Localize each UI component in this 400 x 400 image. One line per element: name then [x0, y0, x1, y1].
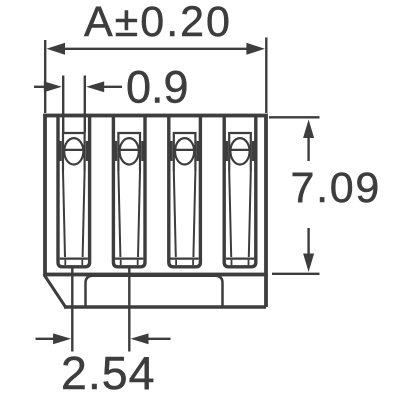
cavity 1 right wing stub: [86, 141, 89, 161]
cavity 1 contact chord line: [63, 149, 85, 151]
dimension 2.54 right extension line: [128, 269, 130, 352]
cavity 3 outline: [169, 116, 201, 267]
dimension A line: [60, 48, 250, 50]
cavity 2 bottom left divider: [120, 260, 122, 266]
cavity 2 bottom contact band top line: [115, 258, 143, 260]
cavity 2 right wing stub: [141, 141, 144, 161]
cavity 1 bottom contact band top line: [60, 258, 88, 260]
cavity 2 contact box: [118, 133, 140, 171]
cavity 3 bottom left divider: [175, 260, 177, 266]
flange inner tab with rounded corners: [86, 276, 223, 307]
cavity 2 left taper line: [118, 171, 120, 257]
cavity 4 left taper line: [229, 171, 231, 257]
cavity 3 right taper line: [193, 171, 195, 257]
cavity 4 contact ellipse: [230, 138, 249, 164]
dimension 7.09 bottom reference line: [272, 273, 320, 275]
svg-text:0.9: 0.9: [126, 62, 189, 113]
cavity 3 contact ellipse: [175, 138, 194, 164]
cavity 4 right wing stub: [252, 141, 255, 161]
dimension 7.09 up arrow: [307, 138, 309, 161]
cavity 1 left taper line: [63, 171, 65, 257]
cavity 2 outline: [113, 116, 145, 267]
dimension A right arrowhead: [246, 43, 265, 55]
dimension 2.54 right arrow: [131, 333, 149, 344]
cavity 2 contact ellipse: [120, 138, 139, 164]
dimension 0.9 right arrow: [86, 81, 104, 92]
flange chamfer edge: [45, 276, 66, 308]
cavity 3 contact chord line: [174, 149, 196, 151]
cavity 4 contact chord line: [229, 149, 251, 151]
cavity 3 contact box: [174, 133, 196, 171]
cavity 2 left wing stub: [114, 141, 117, 161]
cavity 1 right taper line: [83, 171, 85, 257]
cavity 3 bottom contact band top line: [171, 258, 199, 260]
cavity 4 bottom right divider: [248, 260, 250, 266]
dimension 7.09 top reference line: [269, 116, 320, 118]
cavity 2 bottom right divider: [137, 260, 139, 266]
cavity 4 bottom contact band top line: [226, 258, 254, 260]
dimension 2.54 left extension line: [71, 269, 73, 352]
cavity 3 left wing stub: [170, 141, 173, 161]
dimension A right extension line: [265, 38, 267, 114]
svg-text:2.54: 2.54: [61, 347, 156, 399]
cavity 1 contact ellipse: [64, 138, 83, 164]
cavity 1 outline: [58, 116, 90, 267]
flange right edge: [264, 275, 268, 308]
cavity 1 contact box: [63, 133, 85, 171]
connector body outline: [45, 116, 266, 275]
cavity 4 bottom left divider: [231, 260, 233, 266]
cavity 2 contact chord line: [118, 149, 140, 151]
cavity 3 right wing stub: [197, 141, 200, 161]
cavity 1 bottom left divider: [64, 260, 66, 266]
dimension A left arrowhead: [47, 43, 66, 55]
cavity 4 left wing stub: [225, 141, 228, 161]
dimension 0.9 left arrow: [34, 86, 45, 88]
cavity 4 contact box: [229, 133, 251, 171]
dimension 0.9 left extension line: [62, 76, 64, 133]
cavity 3 bottom right divider: [192, 260, 194, 266]
svg-text:7.09: 7.09: [291, 164, 382, 212]
cavity 1 bottom right divider: [81, 260, 83, 266]
cavity 4 outline: [224, 116, 256, 267]
cavity 1 left wing stub: [59, 141, 62, 161]
dimension 7.09 down arrow: [307, 228, 309, 254]
dimension A left extension line: [44, 40, 46, 113]
svg-text:A±0.20: A±0.20: [84, 0, 232, 46]
dimension 2.54 left arrow: [36, 338, 55, 340]
dimension 0.9 right extension line: [84, 76, 86, 133]
cavity 4 right taper line: [249, 171, 251, 257]
cavity 2 right taper line: [138, 171, 140, 257]
flange bottom edge: [64, 305, 266, 308]
cavity 3 left taper line: [174, 171, 176, 257]
